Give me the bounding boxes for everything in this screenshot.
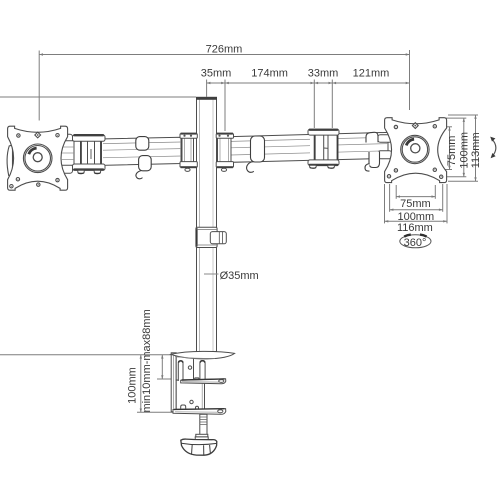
svg-text:75mm: 75mm: [446, 136, 458, 167]
svg-text:121mm: 121mm: [353, 67, 390, 79]
svg-text:min10mm-max88mm: min10mm-max88mm: [141, 309, 153, 412]
svg-text:174mm: 174mm: [251, 67, 288, 79]
svg-text:100mm: 100mm: [397, 211, 434, 223]
svg-text:116mm: 116mm: [397, 222, 433, 234]
svg-text:75mm: 75mm: [400, 198, 431, 210]
svg-text:726mm: 726mm: [206, 44, 243, 56]
svg-text:113mm: 113mm: [470, 132, 482, 168]
svg-text:100mm: 100mm: [458, 132, 470, 169]
svg-text:33mm: 33mm: [308, 67, 339, 79]
svg-text:100mm: 100mm: [126, 367, 138, 404]
svg-text:35mm: 35mm: [201, 67, 232, 79]
svg-text:Ø35mm: Ø35mm: [220, 270, 259, 282]
